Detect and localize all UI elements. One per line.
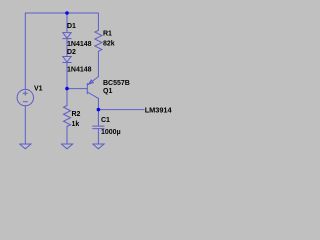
svg-text:R1: R1 [103,30,112,37]
svg-text:LM3914: LM3914 [145,105,173,114]
wire between D1 and D2 [66,39,68,57]
wire R2 top lead [66,89,68,106]
capacitor C1 [93,125,104,127]
svg-text:R2: R2 [72,111,81,118]
diode D1 [63,33,71,39]
resistor R2 [64,106,71,127]
node junction top [65,11,69,15]
svg-text:C1: C1 [101,117,110,124]
ground (V1) [20,144,31,149]
svg-text:V1: V1 [34,85,43,92]
wire to LM3914 [98,109,144,111]
wire C1 bottom lead [97,129,99,144]
ground (C1) [93,144,104,149]
svg-text:1000µ: 1000µ [101,129,121,136]
svg-text:1k: 1k [72,121,80,128]
wire R1 top lead [97,13,99,30]
wire V1 bottom to ground [24,106,26,144]
svg-text:82k: 82k [103,41,115,48]
wire D2 to base junction [66,63,68,89]
transistor Q1 [86,83,88,93]
svg-text:D1: D1 [67,23,76,30]
wire diode column top [66,13,68,33]
wire R1 bottom to emitter [97,51,99,76]
voltage source V1 [17,89,33,105]
wire R2 bottom lead [66,126,68,144]
node junction base [65,87,69,91]
wire collector to junction [97,98,99,109]
resistor R1 [95,30,102,51]
wire base lead [67,88,87,90]
wire left rail down to V1 [24,13,26,89]
diode D2 [63,57,71,63]
svg-text:1N4148: 1N4148 [67,67,92,74]
svg-text:BC557B: BC557B [103,80,130,87]
ground (R2) [61,144,72,149]
svg-text:D2: D2 [67,49,76,56]
wire junction to C1 [97,110,99,126]
svg-text:Q1: Q1 [103,88,112,95]
node junction collector [97,108,101,112]
wire top rail [25,12,98,14]
svg-text:1N4148: 1N4148 [67,41,92,48]
